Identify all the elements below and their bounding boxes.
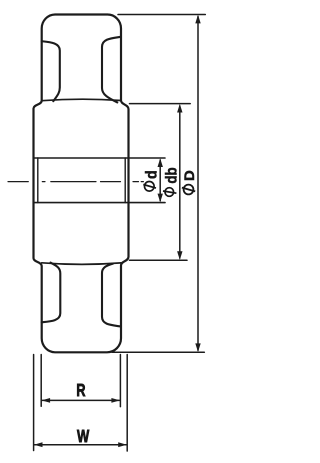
svg-text:R: R — [76, 381, 85, 401]
arrowhead R right — [111, 398, 120, 403]
web neck bottom-left — [42, 263, 61, 323]
bore chamfer right — [124, 158, 126, 203]
extension line phi-D top (top surface extended) — [118, 14, 205, 16]
dimension line phi-d — [159, 160, 161, 201]
arrowhead R left — [42, 398, 51, 403]
svg-text:W: W — [77, 427, 90, 446]
extension line R left — [40, 355, 42, 407]
rim/web top line — [42, 99, 121, 101]
extension line R right — [119, 355, 121, 407]
web neck top-left — [42, 41, 60, 101]
extension line W left — [33, 355, 35, 451]
label phi-d : phi symbol — [143, 182, 156, 192]
arrowhead W left — [34, 442, 43, 447]
extension line phi-db bottom — [130, 259, 188, 261]
wheel outer profile — [34, 14, 129, 352]
web neck top-right — [102, 37, 121, 103]
bore chamfer left — [37, 158, 39, 203]
label phi-db : phi symbol — [163, 188, 176, 197]
rim/web bottom line — [42, 263, 121, 265]
bore top line with phi-d extension — [34, 157, 166, 159]
centerline — [8, 181, 143, 183]
arrowhead phi-D down — [195, 343, 200, 352]
svg-text:d: d — [144, 170, 161, 179]
arrowhead phi-db down — [177, 251, 182, 260]
dimension line phi-db — [179, 106, 181, 258]
svg-text:D: D — [181, 170, 197, 181]
bore bottom line with phi-d extension — [34, 202, 166, 204]
arrowhead phi-db up — [177, 104, 182, 113]
dimension line phi-D — [197, 17, 199, 351]
arrowhead phi-d up — [158, 158, 163, 167]
svg-text:db: db — [164, 167, 181, 183]
web neck bottom-right — [102, 264, 121, 327]
arrowhead W right — [118, 442, 127, 447]
label phi-D : phi symbol — [182, 185, 195, 195]
extension line phi-db top — [130, 103, 191, 105]
dimension line W — [34, 444, 126, 446]
dimension line R — [42, 399, 120, 401]
arrowhead phi-d down — [158, 194, 163, 203]
extension line W right — [126, 355, 128, 452]
extension line phi-D bottom (bottom surface extended) — [112, 351, 204, 353]
arrowhead phi-D up — [195, 15, 200, 24]
